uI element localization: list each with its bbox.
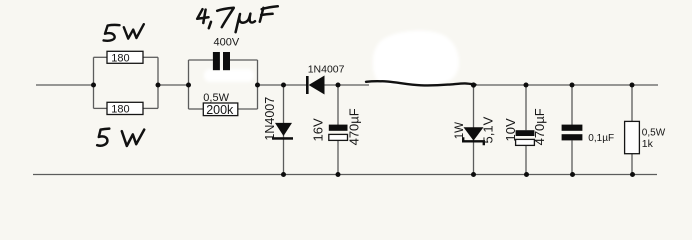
wire: top rail cap block to series diode [258,84,307,86]
handwritten 4,7µF : digit 7 [217,8,234,27]
svg-text:470µF: 470µF [347,108,362,145]
svg-text:5,1V: 5,1V [480,116,495,143]
handwritten 5W (top) : letter W [124,24,144,38]
node dot top rail at shunt diode [281,83,286,88]
node dot top rail at 1k resistor [630,83,635,88]
svg-text:470µF: 470µF [532,108,547,145]
node dot bottom rail at zener [471,172,476,177]
node dot top rail at zener [471,82,476,87]
svg-text:180: 180 [111,52,129,64]
wire: 16V cap branch bottom lead [337,140,339,174]
capacitor C3 0.1uF plates [562,125,583,131]
svg-text:10V: 10V [503,118,518,141]
node dot top rail at cap block left [186,83,191,88]
capacitor C1 470uF 16V electrolytic [329,125,348,131]
zener diode ZD 5.1V (pointing down with hooked bar) [464,127,484,140]
handwritten 5W (top) : digit 5 [104,25,120,41]
svg-text:1k: 1k [642,138,654,150]
diode D1 1N4007 series (cathode bar left, triangle pointing left) [306,76,309,94]
node dot top rail at resistor block left [91,83,96,88]
wire: top rail left input segment [36,84,94,86]
node dot bottom rail at 1k resistor [630,172,635,177]
node dot top rail at 10V cap [524,83,529,88]
capacitor 4.7uF plates [213,52,220,70]
svg-text:200k: 200k [206,103,234,117]
handwritten wavy wire [366,81,476,85]
wire: bottom 180 resistor leads [94,107,108,109]
handwritten 4,7µF : digit 4 [197,9,208,23]
wire: top rail right section [474,84,659,86]
wire: 4.7uF cap leads [189,59,213,61]
node dot top rail at 16V cap [336,83,341,88]
svg-text:1N4007: 1N4007 [308,64,345,76]
white-out blob over top wire [373,31,459,86]
wire: cap block left vertical [188,60,190,109]
svg-text:0,1µF: 0,1µF [588,133,614,144]
node dot bottom rail at shunt diode [281,172,286,177]
node dot bottom rail at 10V cap [524,172,529,177]
wire: cap block right vertical [257,60,259,109]
svg-text:1N4007: 1N4007 [263,97,277,141]
wire: parallel resistor block left vertical [93,57,95,108]
wire: 0.1uF cap branch top lead [571,85,573,125]
handwritten 4,7µF : letter F [260,6,278,22]
node dot bottom rail at 0.1uF cap [570,172,575,177]
node dot top rail at resistor block right [156,83,161,88]
svg-text:16V: 16V [311,118,326,141]
wire: top rail between resistor block and cap block [158,84,189,86]
handwritten 4,7µF : comma [209,22,211,28]
handwritten 5 W (bottom) : letter W [122,130,144,146]
node dot top rail at 0.1uF cap [570,83,575,88]
svg-text:180: 180 [111,104,129,116]
wire: parallel resistor block right vertical [157,57,159,108]
wire: top rail diode to wavy gap [325,84,370,86]
wire: 200k resistor leads [189,108,204,110]
wire: 10V cap branch bottom lead [525,145,527,174]
handwritten 5 W (bottom) : digit 5 [97,129,109,146]
white-out smudge under 4.7uF cap [204,69,254,82]
resistor 1k box [625,121,640,153]
node dot bottom rail at 16V cap [336,172,341,177]
wire: 1k resistor branch top lead [631,85,633,121]
capacitor C2 470uF 10V electrolytic [516,130,535,136]
wire: top 180 resistor leads [94,56,108,58]
wire: 1k resistor branch bottom lead [631,154,633,175]
wire: 16V cap branch top lead [337,85,339,125]
svg-text:0,5W: 0,5W [642,128,666,139]
diode D2 1N4007 shunt (pointing down) [275,123,292,136]
resistor 180 bottom box [107,102,143,114]
handwritten 4,7µF : letter µ [236,14,255,33]
wire: 10V cap branch top lead [525,85,527,130]
wire: zener branch [473,85,475,175]
node dot top rail at cap block right [255,83,260,88]
svg-text:400V: 400V [214,36,240,48]
wire: 0.1uF cap branch bottom lead [571,140,573,174]
wire: vertical diode branch [283,85,285,175]
wire: bottom rail [33,174,657,176]
svg-text:1W: 1W [454,122,466,139]
resistor 180 top box [107,51,143,63]
resistor 200k box [203,103,238,116]
